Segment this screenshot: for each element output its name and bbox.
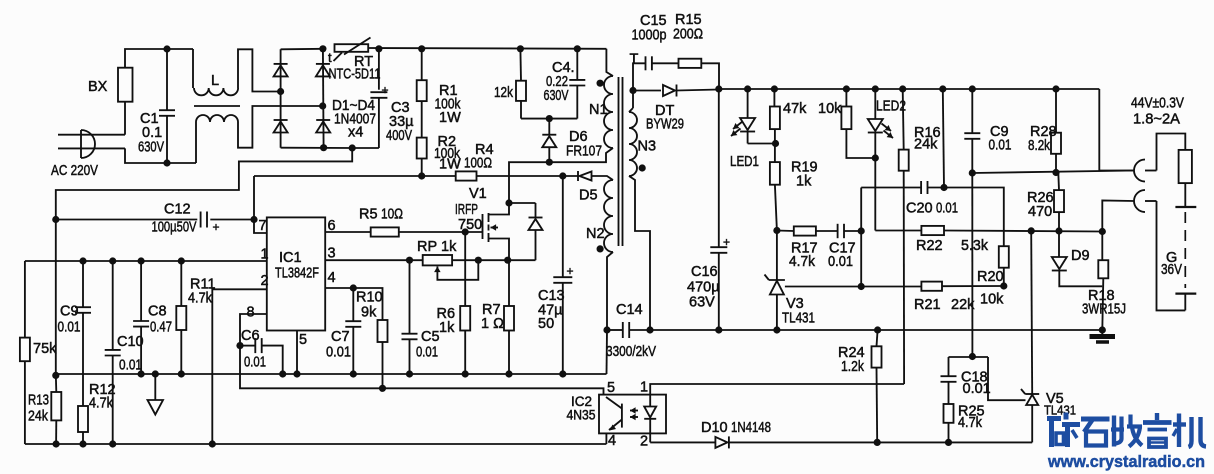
IC2 light arrows xyxy=(630,410,638,412)
junction LED2 top xyxy=(872,85,879,92)
junction C20 right column xyxy=(940,184,947,191)
junction R18 top W2 xyxy=(1099,228,1106,235)
svg-text:4.7k: 4.7k xyxy=(789,254,816,270)
resistor R17 and capacitor C17 xyxy=(777,224,861,238)
svg-text:0.01: 0.01 xyxy=(58,320,81,336)
gate wire from R5 xyxy=(399,231,483,233)
svg-text:1000p: 1000p xyxy=(632,28,667,44)
led LED1 xyxy=(731,89,776,144)
junction R7 bottom xyxy=(505,370,512,377)
snubber branch wire xyxy=(633,63,645,90)
svg-text:470µ: 470µ xyxy=(687,280,720,296)
capacitor C14 xyxy=(607,322,650,338)
svg-text:5: 5 xyxy=(607,380,615,396)
svg-text:C10: C10 xyxy=(117,334,144,350)
svg-text:750: 750 xyxy=(458,217,482,233)
svg-text:IRFP: IRFP xyxy=(455,202,478,218)
resistor R15 xyxy=(679,59,702,68)
svg-text:1N4148: 1N4148 xyxy=(731,420,771,436)
svg-text:R10: R10 xyxy=(356,290,383,306)
svg-text:+: + xyxy=(723,235,730,249)
junction DT output xyxy=(715,85,722,92)
resistor R24 xyxy=(872,330,882,442)
svg-text:N2: N2 xyxy=(586,226,605,242)
svg-text:V1: V1 xyxy=(469,186,487,202)
led LED2 xyxy=(868,89,893,158)
junction C14 right xyxy=(646,326,653,333)
svg-text:100µ50V: 100µ50V xyxy=(152,220,197,236)
junction 12k top xyxy=(517,45,524,52)
capacitor C18 and resistor R25 xyxy=(941,357,957,442)
junction R26 bottom W2 xyxy=(1055,227,1062,234)
battery return wire xyxy=(1157,201,1186,310)
junction R24 top ground xyxy=(874,326,881,333)
junction C7 bottom xyxy=(350,370,357,377)
svg-text:C6: C6 xyxy=(241,328,260,344)
svg-text:R21: R21 xyxy=(914,297,941,313)
junction R6 bottom xyxy=(462,370,469,377)
svg-text:IC1: IC1 xyxy=(279,250,302,266)
svg-text:630V: 630V xyxy=(138,140,164,156)
junction C4 top xyxy=(574,45,581,52)
resistor R1 xyxy=(417,49,427,138)
wire IC2 pin2 and diode D10 xyxy=(650,433,1032,448)
junction C1 bottom xyxy=(163,159,170,166)
svg-text:TL431: TL431 xyxy=(782,311,815,327)
output jack minus xyxy=(1134,190,1157,212)
svg-text:75k: 75k xyxy=(33,341,57,357)
capacitor C4 xyxy=(569,49,585,119)
wire N3 top to rectifier node xyxy=(632,91,634,109)
diode D3 xyxy=(316,65,330,76)
watermark logo xyxy=(1047,413,1206,448)
optocoupler IC2 4N35 box xyxy=(599,395,666,434)
capacitor C13 electrolytic xyxy=(553,176,572,374)
resistor R22 xyxy=(921,226,944,235)
svg-text:10Ω: 10Ω xyxy=(381,207,403,223)
junction R16 top xyxy=(899,85,906,92)
current loop wire W2 xyxy=(875,230,921,232)
AC mains plug xyxy=(58,130,125,158)
svg-text:0.01: 0.01 xyxy=(963,381,991,397)
svg-text:63V: 63V xyxy=(689,295,715,311)
battery G xyxy=(1175,183,1196,310)
junction R2 bottom / Vcc node xyxy=(418,172,425,179)
fuse output xyxy=(1179,150,1192,183)
junction C13 bottom xyxy=(559,370,566,377)
resistor 47k xyxy=(770,89,780,162)
resistor R5 xyxy=(371,227,399,236)
svg-text:NTC-5D11: NTC-5D11 xyxy=(329,67,381,83)
junction D6 cathode node xyxy=(546,115,553,122)
svg-text:C12: C12 xyxy=(164,202,191,218)
bridge right column wire xyxy=(322,49,325,148)
junction R13 top on ground rail xyxy=(52,372,59,379)
junction R18 bottom ground xyxy=(1099,326,1106,333)
svg-text:x4: x4 xyxy=(348,125,363,141)
svg-text:36V: 36V xyxy=(1161,262,1182,278)
wire N1 bottom to drain node xyxy=(509,148,613,203)
junction R19/V3/R17 node xyxy=(773,227,780,234)
capacitor C8 column xyxy=(133,261,149,374)
junction gate/R6 node xyxy=(462,228,469,235)
wire IC2 pin1 xyxy=(650,384,904,395)
junction RP right xyxy=(475,257,482,264)
svg-text:12k: 12k xyxy=(494,85,514,101)
junction C13 top xyxy=(559,172,566,179)
svg-text:www.crystalradio.cn: www.crystalradio.cn xyxy=(1047,452,1205,471)
svg-text:0.01: 0.01 xyxy=(416,345,438,361)
junction C9 bottom W1 xyxy=(969,169,976,176)
svg-text:0.01: 0.01 xyxy=(119,358,142,374)
junction D6 bottom xyxy=(546,159,553,166)
junction R13 bottom xyxy=(53,440,60,447)
junction R25 bottom xyxy=(945,439,952,446)
junction C9 top xyxy=(79,257,86,264)
svg-text:R13: R13 xyxy=(28,393,49,409)
svg-text:5.3k: 5.3k xyxy=(961,238,989,254)
svg-text:1k: 1k xyxy=(796,174,812,190)
junction V1 drain node xyxy=(505,199,512,206)
svg-text:BX: BX xyxy=(88,79,108,95)
wire C9 column down to C18 node xyxy=(971,173,973,357)
svg-text:10k: 10k xyxy=(818,101,842,117)
svg-text:R22: R22 xyxy=(916,238,943,254)
svg-text:LED1: LED1 xyxy=(730,154,759,170)
svg-text:TL3842F: TL3842F xyxy=(275,266,319,282)
svg-text:10k: 10k xyxy=(980,292,1004,308)
svg-text:1 Ω: 1 Ω xyxy=(481,316,504,332)
svg-text:LED2: LED2 xyxy=(876,99,906,115)
junction pin4 node xyxy=(350,284,357,291)
svg-text:T: T xyxy=(630,52,639,68)
output positive rail xyxy=(719,88,1100,90)
wire drain to body diode top xyxy=(509,202,536,204)
svg-text:3300/2kV: 3300/2kV xyxy=(606,344,656,360)
wire choke top winding to bridge AC node 1 xyxy=(238,49,281,91)
svg-text:BYW29: BYW29 xyxy=(646,117,684,133)
tl431 V5 xyxy=(988,231,1039,443)
svg-text:N3: N3 xyxy=(638,139,657,155)
junction C12 left xyxy=(52,216,59,223)
IC2 phototransistor xyxy=(606,397,622,431)
junction C14 left xyxy=(603,326,610,333)
fuse BX xyxy=(118,68,133,102)
wire bridge bottom xyxy=(281,147,353,149)
junction V5 column W2 xyxy=(1028,227,1035,234)
tl431 ref wire with R21 xyxy=(785,282,1004,291)
svg-text:RP: RP xyxy=(417,239,437,255)
wire plug bottom to bottom AC rail xyxy=(125,148,196,163)
svg-text:1W: 1W xyxy=(439,157,461,173)
svg-text:C7: C7 xyxy=(331,329,350,345)
pin 3 wire with trimmer RP xyxy=(325,259,423,261)
resistor R7 xyxy=(504,260,514,374)
choke core line xyxy=(194,105,240,107)
svg-text:D9: D9 xyxy=(1071,248,1090,264)
capacitor C9 right column xyxy=(964,89,980,173)
svg-text:400V: 400V xyxy=(386,128,412,144)
wire RP to V1 source xyxy=(452,259,535,261)
wire C3 bottom to bridge minus xyxy=(352,147,379,149)
junction C10 bottom xyxy=(109,440,116,447)
ground symbol xyxy=(148,374,164,415)
common-mode choke L top winding xyxy=(193,49,238,95)
svg-text:C8: C8 xyxy=(148,304,167,320)
svg-text:C14: C14 xyxy=(616,302,643,318)
diode D9 xyxy=(1052,231,1103,286)
junction column top xyxy=(939,85,946,92)
svg-text:C9: C9 xyxy=(60,304,79,320)
junction pin5 ground xyxy=(293,370,300,377)
junction V3 anode ground xyxy=(773,326,780,333)
wire C18 node xyxy=(949,356,989,358)
wire plug top to fuse BX xyxy=(124,102,126,135)
junction C16 bottom xyxy=(715,326,722,333)
resistor 10k xyxy=(841,89,875,158)
junction C6 right on ground rail xyxy=(279,370,286,377)
wire W2 right xyxy=(944,231,1102,232)
junction bridge AC node 2 xyxy=(319,102,326,109)
resistor R26 xyxy=(1054,173,1064,231)
svg-text:C16: C16 xyxy=(691,264,718,280)
svg-text:4: 4 xyxy=(608,433,616,449)
junction V1 source node xyxy=(504,257,511,264)
wire N2 bottom to C14 xyxy=(607,252,613,330)
junction N3 top xyxy=(629,87,636,94)
capacitor C1 xyxy=(159,49,175,163)
wire choke bottom winding to bridge AC node 2 xyxy=(238,106,323,148)
wire D5 to N2 top xyxy=(592,176,614,180)
resistor R16 xyxy=(899,89,909,384)
capacitor C5 xyxy=(402,260,418,374)
tl431 V3 xyxy=(765,231,785,331)
capacitor C3 electrolytic xyxy=(370,49,387,148)
junction bridge - output xyxy=(320,144,327,151)
op-amp IC1 TL3842F box xyxy=(267,217,325,330)
svg-text:8: 8 xyxy=(247,305,255,321)
capacitor C7 and pin4 wire xyxy=(325,288,361,374)
junction C18 node xyxy=(969,353,976,360)
N2 polarity dot xyxy=(597,245,604,252)
wire R15 to output node xyxy=(701,63,719,89)
junction C17 right xyxy=(858,227,865,234)
junction C5 top xyxy=(406,257,413,264)
junction pin2 column on bottom rail xyxy=(209,440,216,447)
pin 5 ground wire xyxy=(296,331,298,375)
resistor R13 xyxy=(51,374,61,444)
resistor R19 xyxy=(770,162,780,230)
wire LED2 node down to current loop xyxy=(874,158,876,231)
junction RT right xyxy=(375,45,382,52)
resistor 12k xyxy=(516,49,526,119)
svg-text:C5: C5 xyxy=(421,329,440,345)
junction C9 top rail xyxy=(969,85,976,92)
svg-text:3: 3 xyxy=(328,246,336,262)
svg-text:0.01: 0.01 xyxy=(936,201,958,217)
IC2 led xyxy=(644,395,656,434)
svg-text:44V±0.3V: 44V±0.3V xyxy=(1131,96,1184,112)
junction R10 bottom on vref rail xyxy=(379,385,386,392)
diode D4 xyxy=(316,122,330,133)
wire pin6 to R5 xyxy=(325,231,371,233)
junction 10k top xyxy=(843,85,850,92)
svg-text:4N35: 4N35 xyxy=(567,408,596,423)
resistor R18 xyxy=(1098,232,1108,331)
signal ground rail xyxy=(56,373,607,375)
resistor R4 xyxy=(456,171,477,180)
transformer core xyxy=(618,77,620,246)
capacitor C12 and Vcc wire to pin 7 xyxy=(56,176,267,233)
junction ref node xyxy=(858,283,865,290)
svg-text:1: 1 xyxy=(640,380,648,396)
wire 12k to C4 bottom xyxy=(521,118,577,120)
primary negative return wire xyxy=(56,148,352,375)
junction R1 top xyxy=(418,45,425,52)
wire jack to fuse xyxy=(1157,134,1186,171)
svg-text:0.01: 0.01 xyxy=(326,345,351,361)
diode D1 xyxy=(274,65,288,76)
capacitor C16 electrolytic xyxy=(710,89,727,330)
svg-text:+: + xyxy=(213,220,220,234)
svg-text:C20: C20 xyxy=(906,201,933,217)
junction R11 top xyxy=(178,257,185,264)
svg-text:R5: R5 xyxy=(359,207,378,223)
junction R11 bottom xyxy=(178,370,185,377)
diode D2 xyxy=(274,122,288,133)
svg-text:R20: R20 xyxy=(977,269,1004,285)
svg-text:24k: 24k xyxy=(28,409,49,425)
junction ground symbol stem xyxy=(152,370,159,377)
svg-text:8.2k: 8.2k xyxy=(1028,138,1051,154)
feedback bottom rail xyxy=(25,443,607,445)
pin 8 vref wire and capacitor C6 xyxy=(240,314,283,374)
diode D5 xyxy=(580,172,592,181)
svg-text:D5: D5 xyxy=(579,188,598,204)
wire N3 bottom to secondary ground xyxy=(629,176,650,330)
junction R24 bottom xyxy=(874,439,881,446)
wire primary ground to C14 xyxy=(606,330,609,374)
junction C1 top xyxy=(163,45,170,52)
svg-text:+: + xyxy=(382,83,389,97)
earth ground symbol xyxy=(1090,330,1116,342)
bridge left column wire xyxy=(280,49,282,147)
junction R28 top xyxy=(1052,85,1059,92)
junction R20 bottom xyxy=(1000,282,1007,289)
svg-text:6: 6 xyxy=(328,218,336,234)
secondary ground rail xyxy=(650,329,1102,331)
pin 1 comp wire xyxy=(25,260,267,262)
output jack plus xyxy=(1134,160,1157,182)
wire BX top to top rail xyxy=(125,49,193,68)
svg-text:2: 2 xyxy=(261,273,269,289)
transformer winding N2 xyxy=(604,180,613,252)
wire RT right to DC rail xyxy=(368,47,606,50)
choke L bottom winding xyxy=(196,115,238,163)
svg-text:0.01: 0.01 xyxy=(244,355,266,371)
resistor R10 xyxy=(353,288,387,388)
svg-text:50: 50 xyxy=(538,316,554,332)
junction C3 bottom node xyxy=(349,144,356,151)
resistor R11 xyxy=(176,261,186,374)
output sense wire W1 xyxy=(972,171,1134,174)
svg-text:7: 7 xyxy=(259,218,267,234)
transistor V1 IRFP750 mosfet symbol xyxy=(483,203,510,260)
wire bridge top xyxy=(281,48,323,51)
svg-text:0.01: 0.01 xyxy=(828,254,853,270)
svg-text:200Ω: 200Ω xyxy=(673,27,703,43)
junction 47k top xyxy=(771,85,778,92)
resistor R28 xyxy=(1051,89,1061,173)
capacitor C20 wire xyxy=(861,181,1004,246)
svg-text:1k: 1k xyxy=(439,320,455,336)
transformer primary winding N1 xyxy=(604,76,613,148)
wire output minus to R18 xyxy=(1102,200,1134,231)
wire DC rail to N1 top xyxy=(606,49,613,76)
svg-text:1k: 1k xyxy=(441,239,457,255)
wire R4 to D5 xyxy=(477,175,579,177)
svg-text:630V: 630V xyxy=(544,88,569,104)
junction C8 bottom xyxy=(138,370,145,377)
capacitor C10 column xyxy=(105,261,121,444)
trimmer RP 1k xyxy=(423,255,479,280)
rail column to C20 node xyxy=(943,89,944,188)
junction bridge + output xyxy=(319,45,326,52)
resistor R20 xyxy=(999,246,1009,286)
junction LED2/10k node xyxy=(872,154,879,161)
svg-text:0.47: 0.47 xyxy=(150,320,172,336)
diode DT BYW29 xyxy=(633,85,719,97)
junction R28 bottom W1 xyxy=(1052,169,1059,176)
svg-text:AC 220V: AC 220V xyxy=(51,163,98,179)
junction C12 right / pin7 node xyxy=(250,216,257,223)
junction 47k/LED1/R19 node xyxy=(772,140,779,147)
body diode of V1 xyxy=(529,203,543,260)
resistor R6 xyxy=(460,232,470,374)
Vcc wire to R4 and D5 xyxy=(254,175,456,177)
svg-text:+: + xyxy=(567,264,574,278)
svg-text:4.7k: 4.7k xyxy=(89,396,114,412)
svg-text:24k: 24k xyxy=(914,137,938,153)
svg-text:1.2k: 1.2k xyxy=(841,359,865,375)
wire IC2 pin4 to bottom rail xyxy=(605,433,607,444)
resistor 75k xyxy=(20,261,30,444)
junction bridge AC node 1 xyxy=(277,88,284,95)
svg-text:4.7k: 4.7k xyxy=(958,415,983,431)
N3 polarity dot xyxy=(639,164,646,171)
junction C6 left xyxy=(236,342,243,349)
junction LED1 top xyxy=(744,85,751,92)
diode D6 xyxy=(542,119,556,163)
svg-text:47k: 47k xyxy=(783,101,807,117)
wire C17 column xyxy=(860,188,862,287)
svg-text:5: 5 xyxy=(299,332,307,348)
pin 2 feedback wire xyxy=(212,289,266,444)
svg-text:1.8~2A: 1.8~2A xyxy=(1133,112,1180,128)
svg-text:9k: 9k xyxy=(361,305,377,321)
vref rail wire to IC2 pin5 xyxy=(240,346,604,395)
svg-text:FR107: FR107 xyxy=(566,144,602,160)
capacitor C9 left and resistor R12 column xyxy=(75,261,91,444)
junction R12 bottom xyxy=(79,440,86,447)
svg-text:100Ω: 100Ω xyxy=(464,156,492,172)
junction C8 top xyxy=(138,257,145,264)
junction C10 top xyxy=(109,257,116,264)
svg-text:2: 2 xyxy=(640,434,648,450)
wire rail to output plus jack xyxy=(1099,89,1134,171)
svg-text:1W: 1W xyxy=(439,110,461,126)
N1 polarity dot xyxy=(597,80,604,87)
